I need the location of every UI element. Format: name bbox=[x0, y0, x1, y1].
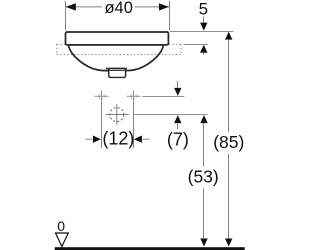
dimension ø40 extension line left bbox=[65, 1, 67, 31]
svg-text:ø40: ø40 bbox=[104, 0, 132, 17]
reference line trap level (gray) bbox=[134, 114, 208, 116]
reference line countertop level (gray) bbox=[184, 44, 208, 46]
trap centre cross bbox=[106, 104, 129, 125]
fixing point cross right bbox=[127, 90, 141, 102]
dimension (7) lower arrow (up) bbox=[174, 115, 181, 123]
arrowhead ø40 right bbox=[159, 3, 169, 10]
dimension (85) line lower part bbox=[228, 154, 230, 240]
washbasin rim bbox=[66, 32, 169, 45]
dimension (12) left arrow bbox=[85, 138, 92, 140]
dimension (85) top arrow (up) bbox=[225, 32, 232, 40]
dimension (12) right arrow bbox=[143, 138, 150, 140]
dimension 5 lower arrow (up) bbox=[200, 45, 207, 53]
dimension (85) line upper part bbox=[228, 40, 230, 133]
svg-text:5: 5 bbox=[199, 0, 208, 19]
dimension line ø40 bbox=[66, 6, 103, 8]
dimension (12) extension line right bbox=[133, 103, 135, 148]
svg-text:(12): (12) bbox=[102, 128, 134, 148]
dimension (53) line lower part bbox=[203, 189, 205, 240]
dimension ø40 extension line right bbox=[169, 1, 171, 31]
fixing point cross left bbox=[95, 90, 109, 102]
dimension (85) bottom arrow (down) bbox=[225, 239, 232, 247]
svg-text:(85): (85) bbox=[213, 132, 244, 152]
svg-text:(7): (7) bbox=[167, 129, 189, 149]
dimension (53) bottom arrow (down) bbox=[200, 239, 207, 247]
dimension (12) extension line left bbox=[101, 103, 103, 148]
arrowhead ø40 left bbox=[66, 3, 76, 10]
reference line fixing-holes level (gray) bbox=[143, 96, 185, 98]
washbasin bowl bbox=[69, 46, 164, 71]
floor line bbox=[55, 247, 245, 250]
svg-text:0: 0 bbox=[57, 218, 65, 234]
dimension 5 upper arrow (down) bbox=[203, 17, 205, 24]
dashed countertop cut-out rectangle bbox=[57, 44, 181, 54]
dimension (53) top arrow (up) bbox=[200, 115, 207, 123]
drain fitting bbox=[106, 69, 127, 78]
dimension (7) upper arrow (down) bbox=[177, 81, 179, 89]
dimension (53) line upper part bbox=[203, 123, 205, 166]
reference line rim-top level (gray) bbox=[170, 31, 234, 33]
trap connection dashed circle bbox=[110, 108, 124, 122]
svg-text:(53): (53) bbox=[188, 166, 219, 186]
datum triangle bbox=[56, 233, 69, 247]
